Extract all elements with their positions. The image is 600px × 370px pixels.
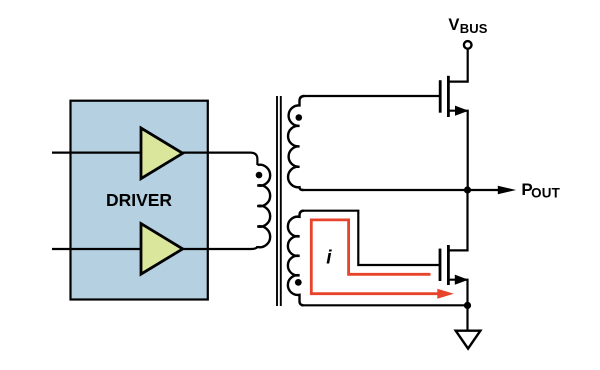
driver block U1: [71, 101, 208, 300]
wire buffer B output to primary: [183, 246, 258, 249]
ground symbol: [456, 331, 481, 349]
wire buffer B input inside box: [71, 248, 143, 250]
svg-text:BUS: BUS: [460, 21, 488, 36]
transformer core: [277, 96, 281, 306]
MOSFET Q1 drain lead: [448, 49, 467, 82]
MOSFET Q2 source arrow: [455, 275, 469, 285]
wire input A: [52, 152, 142, 154]
transformer secondary winding S1 (top): [288, 96, 304, 190]
current loop i path: [311, 220, 438, 294]
wire output node to POUT arrow: [468, 189, 500, 191]
polarity dot secondary S2: [295, 279, 302, 286]
MOSFET Q1 channel bar: [447, 76, 450, 117]
polarity dot secondary S1: [296, 114, 303, 121]
MOSFET Q1 source lead: [448, 111, 467, 190]
MOSFET Q2 gate bar: [439, 249, 442, 281]
wire S2 bottom rail to source node: [302, 304, 468, 306]
source node dot: [464, 302, 471, 309]
MOSFET Q2 channel bar: [447, 245, 450, 285]
svg-text:DRIVER: DRIVER: [106, 190, 172, 210]
POUT arrowhead: [498, 186, 516, 195]
wire input B: [52, 248, 142, 250]
MOSFET Q1 source arrow: [455, 106, 469, 116]
wire buffer A input inside box: [71, 152, 143, 154]
MOSFET Q2 drain lead: [448, 190, 467, 250]
wire S1 bottom to output node: [302, 189, 468, 191]
polarity dot primary: [256, 172, 263, 179]
current loop arrowhead: [437, 289, 454, 299]
transformer T1 primary winding: [257, 165, 270, 247]
wire S1 top to Q1 gate: [303, 95, 440, 97]
VBUS terminal circle: [464, 41, 472, 49]
buffer amplifier B: [141, 224, 183, 275]
svg-text:V: V: [448, 15, 459, 34]
transformer secondary winding S2 (bottom): [288, 211, 304, 306]
wire buffer A output to primary: [183, 153, 258, 165]
wire source node to ground: [466, 305, 468, 330]
output node dot: [464, 186, 471, 193]
svg-text:OUT: OUT: [531, 186, 560, 201]
buffer amplifier A: [141, 128, 183, 179]
svg-text:i: i: [326, 247, 332, 268]
wire S2 top to Q2 gate (stepped): [302, 211, 439, 265]
MOSFET Q1 gate bar: [439, 80, 442, 113]
MOSFET Q2 source lead: [448, 280, 467, 306]
